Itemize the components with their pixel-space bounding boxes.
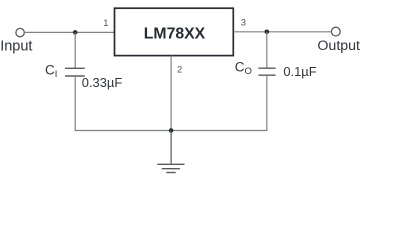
svg-text:Output: Output bbox=[317, 38, 360, 54]
ground bbox=[157, 164, 184, 172]
svg-text:3: 3 bbox=[241, 16, 246, 27]
capacitor CO bbox=[258, 68, 275, 75]
wire bottom rail bbox=[75, 130, 268, 132]
wire C1 bottom lead bbox=[74, 76, 76, 131]
wire CO top lead bbox=[266, 32, 268, 68]
wire CO bottom lead bbox=[266, 75, 268, 130]
svg-text:Input: Input bbox=[0, 38, 32, 54]
input terminal circle bbox=[16, 28, 24, 36]
wire pin 3 to output bbox=[234, 31, 332, 33]
node junction at CO top bbox=[265, 30, 270, 35]
node junction at ground bbox=[169, 128, 174, 133]
node junction at C1 top bbox=[73, 30, 78, 35]
svg-text:LM78XX: LM78XX bbox=[144, 26, 206, 43]
svg-text:0.33µF: 0.33µF bbox=[82, 75, 123, 90]
wire input to pin 1 bbox=[25, 31, 114, 33]
svg-text:1: 1 bbox=[103, 17, 108, 28]
wire C1 top lead bbox=[74, 32, 76, 68]
op-amp U1 box LM78XX bbox=[115, 8, 234, 55]
svg-text:0.1µF: 0.1µF bbox=[283, 64, 316, 79]
output terminal circle bbox=[331, 27, 340, 36]
svg-text:CI: CI bbox=[45, 62, 57, 80]
svg-text:CO: CO bbox=[235, 59, 252, 77]
capacitor C1 bbox=[65, 68, 85, 76]
wire ground stem bbox=[170, 131, 172, 165]
svg-text:2: 2 bbox=[177, 63, 182, 74]
wire pin 2 down bbox=[170, 56, 172, 131]
